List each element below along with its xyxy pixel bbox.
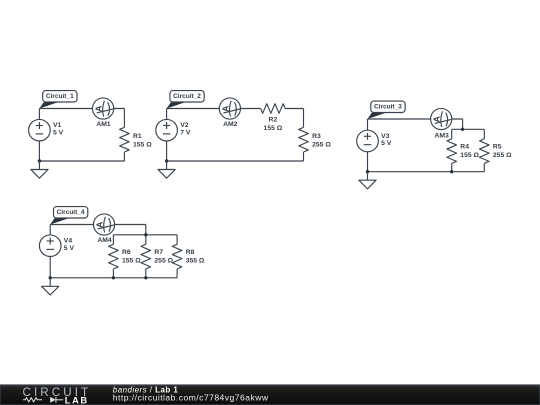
svg-text:A: A [432, 116, 442, 122]
ground [42, 278, 59, 295]
svg-text:Circuit_2: Circuit_2 [173, 93, 201, 100]
junction [144, 233, 147, 236]
wire [167, 108, 261, 110]
wire [112, 235, 114, 245]
wire [368, 118, 463, 120]
svg-text:V2: V2 [180, 122, 189, 129]
wire [50, 224, 146, 226]
svg-text:V1: V1 [53, 122, 62, 129]
wire [39, 160, 124, 162]
svg-text:AM4: AM4 [97, 237, 112, 244]
svg-text:355 Ω: 355 Ω [186, 257, 205, 264]
svg-text:AM2: AM2 [223, 121, 238, 128]
junction [38, 159, 41, 162]
svg-text:A: A [95, 222, 105, 228]
svg-text:255 Ω: 255 Ω [493, 152, 512, 159]
junction [450, 170, 453, 173]
junction [366, 170, 369, 173]
wire [176, 269, 178, 278]
wire [483, 163, 485, 171]
voltage source V4 [39, 235, 61, 257]
junction [165, 159, 168, 162]
ground [31, 161, 48, 178]
svg-text:155 Ω: 155 Ω [122, 257, 141, 264]
resistor R8 [172, 244, 182, 269]
wire [367, 119, 369, 130]
node Circuit_2 [167, 91, 205, 109]
svg-text:LAB: LAB [65, 396, 89, 405]
svg-text:AM3: AM3 [434, 133, 449, 140]
svg-text:R8: R8 [186, 249, 195, 256]
resistor R5 [480, 139, 490, 164]
svg-text:5 V: 5 V [64, 245, 75, 252]
ammeter AM3 [431, 108, 452, 129]
svg-text:R5: R5 [493, 144, 502, 151]
wire [367, 152, 369, 172]
wire [166, 109, 168, 120]
wire [462, 119, 464, 129]
ammeter AM1 [93, 98, 114, 119]
junction [461, 128, 464, 131]
svg-text:R4: R4 [460, 144, 469, 151]
wire [145, 225, 147, 235]
node Circuit_3 [368, 101, 406, 119]
wire [303, 109, 305, 128]
svg-text:Circuit_4: Circuit_4 [57, 209, 85, 216]
ammeter AM4 [94, 214, 115, 235]
logo resistor-diode symbol [23, 397, 63, 403]
wire [38, 141, 40, 161]
ammeter AM2 [219, 98, 240, 119]
junction [144, 276, 147, 279]
svg-text:R2: R2 [269, 117, 278, 124]
wire [49, 257, 51, 278]
svg-text:155 Ω: 155 Ω [264, 125, 283, 132]
wire [38, 109, 40, 120]
svg-text:R3: R3 [312, 133, 321, 140]
voltage source V2 [156, 119, 178, 141]
svg-text:V4: V4 [64, 237, 73, 244]
svg-text:7 V: 7 V [180, 129, 191, 136]
wire [176, 235, 178, 245]
wire [452, 128, 485, 130]
wire [49, 225, 51, 235]
wire [451, 163, 453, 171]
resistor R1 [120, 127, 130, 152]
junction [49, 276, 52, 279]
svg-text:A: A [94, 106, 104, 112]
wire [123, 109, 125, 128]
footer bar [0, 385, 540, 405]
wire [167, 160, 304, 162]
node Circuit_4 [50, 207, 88, 225]
svg-text:155 Ω: 155 Ω [133, 141, 152, 148]
svg-text:5 V: 5 V [53, 129, 64, 136]
wire [113, 234, 177, 236]
resistor R3 [299, 127, 309, 152]
wire [112, 269, 114, 278]
wire [368, 171, 485, 173]
ground [158, 161, 175, 178]
svg-text:R1: R1 [133, 133, 142, 140]
wire [285, 108, 303, 110]
resistor R4 [447, 139, 457, 164]
svg-text:Circuit_3: Circuit_3 [374, 103, 402, 110]
wire [145, 235, 147, 245]
junction [112, 276, 115, 279]
resistor R7 [141, 244, 151, 269]
svg-text:155 Ω: 155 Ω [460, 152, 479, 159]
wire [451, 129, 453, 139]
svg-text:AM1: AM1 [96, 121, 111, 128]
wire [303, 152, 305, 161]
svg-text:255 Ω: 255 Ω [312, 141, 331, 148]
resistor R2 [261, 104, 286, 114]
svg-text:255 Ω: 255 Ω [154, 257, 173, 264]
svg-text:A: A [220, 106, 230, 112]
ground [359, 172, 376, 189]
wire [50, 277, 177, 279]
svg-text:R7: R7 [154, 249, 163, 256]
svg-text:V3: V3 [381, 133, 390, 140]
svg-text:5 V: 5 V [381, 140, 392, 147]
svg-text:R6: R6 [122, 249, 131, 256]
resistor R6 [109, 244, 119, 269]
voltage source V3 [357, 130, 379, 152]
node Circuit_1 [39, 91, 77, 109]
svg-text:Circuit_1: Circuit_1 [46, 93, 74, 100]
wire [483, 129, 485, 139]
voltage source V1 [29, 119, 51, 141]
wire [166, 141, 168, 161]
wire [123, 152, 125, 161]
svg-text:http://circuitlab.com/c7784vg7: http://circuitlab.com/c7784vg76akww [113, 392, 269, 402]
wire [145, 269, 147, 278]
wire [39, 108, 124, 110]
